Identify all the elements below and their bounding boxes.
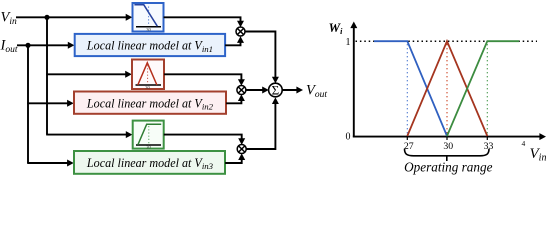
wire Iout vertical bus [27,45,29,163]
svg-text:4: 4 [522,139,526,148]
svg-text:30: 30 [146,27,151,32]
plot dotted vertical 33 [486,44,488,135]
model block M2 [74,92,226,114]
svg-text:Local linear model at Vin2: Local linear model at Vin2 [86,96,214,111]
membership block F1 [133,3,164,32]
plot X axis [353,136,542,138]
plot red membership curve [407,41,487,136]
wire F2 output [164,74,241,82]
plot green membership curve [447,41,519,136]
svg-text:Σ: Σ [272,83,280,98]
svg-text:30: 30 [146,144,151,149]
arrow into M2 [67,100,74,107]
arrow into X1 bottom [237,36,244,43]
wire Vin branch to F2 [46,73,128,75]
wire Vin branch to F3 [46,134,129,136]
membership block F2 [132,60,164,91]
arrow into X2 top [238,79,245,86]
plot dotted level-1 line [356,40,538,42]
wire F1 output [164,17,241,23]
plot dotted vertical 30 [446,44,448,135]
wire X1 to summer [245,32,275,80]
brace operating range [405,149,490,156]
plot blue membership curve [374,41,447,136]
wire Vin vertical bus [46,17,48,134]
arrow into summer left [262,87,269,94]
arrow into summer bottom [272,97,279,104]
multiplier X2 [237,86,246,95]
arrow into M1 [68,42,75,49]
plot Y axis arrow [350,22,357,29]
arrow into F2 [125,71,132,78]
arrow into X2 bottom [238,94,245,101]
plot tick 33 [486,137,488,140]
wire Iout branch to M2 [27,102,70,104]
svg-text:Local linear model at Vin1: Local linear model at Vin1 [86,39,213,54]
svg-text:30: 30 [443,141,453,152]
arrow into M3 [67,160,74,167]
summer S1 [269,83,283,98]
plot Y axis [353,26,355,137]
svg-text:1: 1 [346,37,351,48]
brace stem [446,156,448,161]
plot tick 27 [406,137,408,140]
membership block F3 [133,121,164,150]
svg-text:30: 30 [145,85,150,90]
wire Iout horizontal [17,44,71,46]
arrow into F1 [126,14,133,21]
svg-text:0: 0 [346,132,351,143]
arrow into X3 top [238,138,245,145]
multiplier X1 [236,27,245,36]
multiplier X3 [237,145,246,154]
wire X2 to summer [246,89,265,91]
wire M3 output [225,157,242,163]
wire summer output [282,89,299,91]
wire Iout branch to M3 [27,162,70,164]
wire X3 to summer [246,101,275,150]
model block M3 [74,151,225,174]
wire F3 output [164,135,242,142]
arrow into F3 [126,131,133,138]
plot X axis arrow [539,133,546,140]
svg-text:Local linear model at Vin3: Local linear model at Vin3 [86,156,214,171]
arrow into summer top [272,77,279,84]
model block M1 [75,34,225,56]
svg-text:Operating range: Operating range [404,160,492,175]
wire M1 output [225,40,240,46]
wire Vin horizontal [16,16,129,18]
arrow output [296,87,303,94]
plot dotted vertical 27 [406,44,408,135]
junction Iout node [25,43,30,48]
arrow into X3 bottom [238,153,245,160]
arrow into X1 top [237,21,244,28]
plot tick 30 [446,137,448,140]
wire M2 output [226,98,241,104]
junction Vin node [44,15,49,20]
